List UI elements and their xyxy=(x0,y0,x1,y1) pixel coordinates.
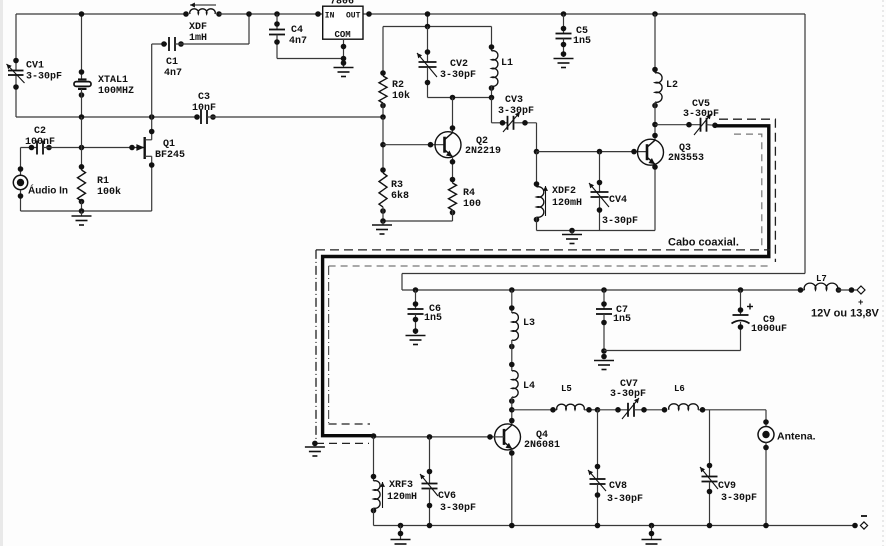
svg-text:CV3: CV3 xyxy=(505,95,523,106)
wire input ground bus y=211 xyxy=(21,210,152,212)
variable capacitor CV8 3-30pF xyxy=(588,410,643,526)
capacitor C3 10nF xyxy=(192,92,383,124)
ground (Q3 stage) xyxy=(562,231,582,244)
inductor L6 xyxy=(662,384,766,413)
svg-text:L2: L2 xyxy=(666,80,678,91)
inductor L7 xyxy=(798,274,857,293)
svg-text:100MHZ: 100MHZ xyxy=(98,86,134,97)
variable capacitor CV7 3-30pF xyxy=(598,379,665,419)
svg-text:10k: 10k xyxy=(392,90,410,102)
svg-text:CV6: CV6 xyxy=(438,491,456,502)
ground (Q2 stage) xyxy=(372,221,392,234)
svg-text:Q1: Q1 xyxy=(163,139,175,150)
svg-text:L3: L3 xyxy=(523,318,535,329)
svg-text:6k8: 6k8 xyxy=(391,190,409,202)
variable capacitor CV6 3-30pF xyxy=(420,437,476,526)
coax shield dashed below main run xyxy=(329,265,770,267)
wire output bus from Q4 collector xyxy=(512,409,557,411)
terminal +12V (diamond) xyxy=(857,286,865,294)
node C3/R2 junction xyxy=(380,114,386,120)
wire Q3 stage bottom bus xyxy=(537,230,656,232)
coax shield left outer dash-dot vertical xyxy=(315,250,317,444)
capacitor C4 4n7 xyxy=(269,11,344,58)
variable capacitor CV9 3-30pF xyxy=(700,410,757,526)
voltage regulator U1 7806 xyxy=(315,0,372,40)
transistor Q4 2N6081 xyxy=(495,424,561,451)
coax shield bottom dashes xyxy=(316,442,369,444)
antenna connector Antena xyxy=(758,410,816,526)
svg-text:CV1: CV1 xyxy=(26,61,44,72)
svg-text:Antena.: Antena. xyxy=(777,431,816,443)
svg-text:CV2: CV2 xyxy=(450,59,468,70)
svg-text:3-30pF: 3-30pF xyxy=(602,216,638,227)
svg-text:1n5: 1n5 xyxy=(613,314,631,325)
wire tank to Q2 collector xyxy=(452,98,454,133)
wire bottom ground bus xyxy=(374,525,856,527)
node CV8 branch xyxy=(595,407,601,413)
transistor Q1 BF245 JFET xyxy=(136,44,185,211)
wire R2 bottom to Q2 base node xyxy=(382,117,384,173)
svg-text:2N2219: 2N2219 xyxy=(465,146,501,157)
svg-text:1000uF: 1000uF xyxy=(751,324,787,335)
capacitor C7 1n5 xyxy=(596,287,631,350)
wire return line to supply rail xyxy=(402,273,805,275)
ground (coax shield) xyxy=(305,441,325,456)
wire 12V rail y=290 xyxy=(402,289,805,291)
resistor R2 10k xyxy=(379,27,410,118)
svg-text:1n5: 1n5 xyxy=(573,36,591,47)
wire CV3 to Q3 base xyxy=(536,123,538,152)
wire Q2 base from R2/R3 node xyxy=(383,144,445,146)
svg-text:XTAL1: XTAL1 xyxy=(98,75,128,86)
svg-text:3-30pF: 3-30pF xyxy=(440,503,476,514)
wire top supply rail left segment xyxy=(16,13,187,15)
variable capacitor CV3 3-30pF xyxy=(492,95,537,132)
svg-text:3-30pF: 3-30pF xyxy=(610,389,646,400)
svg-text:XDF: XDF xyxy=(189,22,207,33)
svg-text:C2: C2 xyxy=(34,126,46,137)
svg-text:C4: C4 xyxy=(291,25,303,36)
wire C7 bottom to C9 bottom xyxy=(604,350,741,352)
svg-text:100nF: 100nF xyxy=(25,137,55,148)
svg-text:10nF: 10nF xyxy=(192,103,216,114)
svg-text:120mH: 120mH xyxy=(387,492,417,503)
svg-text:2N6081: 2N6081 xyxy=(524,440,560,451)
crystal XTAL1 100MHZ xyxy=(74,11,134,117)
ground (7806/C4) xyxy=(334,67,354,69)
terminal negative (diamond) xyxy=(852,516,867,529)
svg-text:R4: R4 xyxy=(463,188,475,199)
wire coax center conductor (thick) xyxy=(323,126,769,436)
variable capacitor CV2 3-30pF xyxy=(417,27,476,98)
svg-text:3-30pF: 3-30pF xyxy=(683,109,719,120)
ground (output bus) xyxy=(642,523,662,549)
coax shield inner dashed (top right) xyxy=(734,134,762,247)
variable capacitor CV5 3-30pF xyxy=(655,99,719,135)
electrolytic capacitor C9 1000uF xyxy=(732,287,788,350)
wire Q2 stage ground bus xyxy=(383,220,453,222)
svg-text:4n7: 4n7 xyxy=(289,36,307,47)
inductor L1 xyxy=(489,27,513,98)
svg-text:7806: 7806 xyxy=(330,0,354,8)
svg-text:CV4: CV4 xyxy=(609,195,627,206)
svg-text:C1: C1 xyxy=(166,57,178,68)
svg-text:100k: 100k xyxy=(97,186,121,198)
svg-text:+: + xyxy=(858,298,863,308)
wire right border vertical xyxy=(804,14,806,274)
svg-text:3-30pF: 3-30pF xyxy=(607,494,643,505)
svg-text:2N3553: 2N3553 xyxy=(668,153,704,164)
label cabo coaxial xyxy=(665,236,741,248)
svg-text:3-30pF: 3-30pF xyxy=(721,493,757,504)
svg-text:R3: R3 xyxy=(391,180,403,191)
ground (C7) xyxy=(594,348,614,369)
wire Q4 base bus from coax xyxy=(374,436,505,438)
wire top supply rail from 7806 to right border xyxy=(364,13,806,15)
svg-text:IN: IN xyxy=(325,12,335,21)
coax shield left inner dash-dot vertical xyxy=(328,266,330,424)
svg-text:L1: L1 xyxy=(501,58,513,69)
svg-text:12V ou 13,8V: 12V ou 13,8V xyxy=(811,308,880,320)
coax shield dashed above main run xyxy=(316,249,770,251)
wire 7806 COM pin to ground xyxy=(343,39,345,67)
inductor L4 xyxy=(509,371,535,425)
svg-text:3-30pF: 3-30pF xyxy=(26,72,62,83)
svg-text:Áudio In: Áudio In xyxy=(28,184,68,197)
svg-text:OUT: OUT xyxy=(346,12,361,21)
inductor XDF 1mH (RF choke in supply rail) xyxy=(183,3,222,45)
svg-text:R1: R1 xyxy=(97,176,109,187)
wire tank bottom xyxy=(428,97,492,99)
wire drop to 12V rail xyxy=(401,274,403,291)
capacitor C1 4n7 xyxy=(152,11,252,79)
transistor Q3 2N3553 xyxy=(638,139,705,165)
wire CV2/L1 top feed y=26.5 xyxy=(427,14,429,27)
svg-text:COM: COM xyxy=(335,30,351,40)
resistor R4 100 (Q2 emitter) xyxy=(449,157,482,221)
capacitor C2 100nF xyxy=(21,126,139,155)
svg-text:3-30pF: 3-30pF xyxy=(440,70,476,81)
svg-text:3-30pF: 3-30pF xyxy=(498,106,534,117)
inductor XDF2 120mH xyxy=(534,152,582,231)
svg-text:4n7: 4n7 xyxy=(164,68,182,79)
svg-text:C3: C3 xyxy=(198,92,210,103)
transistor Q2 2N2219 xyxy=(435,132,501,158)
svg-text:XDF2: XDF2 xyxy=(552,186,576,197)
svg-text:100: 100 xyxy=(463,199,481,210)
coax shield outer dashed (top right) xyxy=(719,119,775,262)
inductor L2 xyxy=(652,11,678,140)
svg-text:BF245: BF245 xyxy=(155,150,185,161)
svg-text:R2: R2 xyxy=(392,80,404,91)
svg-text:L4: L4 xyxy=(523,381,535,392)
resistor R3 6k8 xyxy=(379,167,409,221)
wire top supply rail to 7806 xyxy=(219,13,323,15)
variable capacitor CV4 3-30pF xyxy=(589,152,638,231)
svg-text:CV8: CV8 xyxy=(609,481,627,492)
capacitor C6 1n5 xyxy=(406,287,443,344)
inductor L3 xyxy=(509,287,535,371)
svg-text:XRF3: XRF3 xyxy=(389,480,413,491)
ground (input stage) xyxy=(72,211,92,225)
svg-text:1n5: 1n5 xyxy=(424,313,442,324)
capacitor C5 1n5 xyxy=(554,11,592,67)
variable capacitor CV1 3-30pF xyxy=(7,14,63,117)
resistor R1 100k xyxy=(78,117,122,211)
svg-text:1mH: 1mH xyxy=(189,33,207,44)
audio input connector Audio In xyxy=(13,148,68,212)
svg-text:CV9: CV9 xyxy=(718,481,736,492)
wire oscillator bottom bus y=117 xyxy=(16,116,198,118)
ground (Q4 stage) xyxy=(391,523,411,549)
wire Q4 emitter xyxy=(511,449,513,526)
inductor XRF3 120mH xyxy=(371,437,417,526)
svg-text:L7: L7 xyxy=(816,274,827,284)
svg-text:L6: L6 xyxy=(674,384,685,394)
inductor L5 xyxy=(557,384,598,413)
svg-text:Cabo coaxial.: Cabo coaxial. xyxy=(668,237,739,249)
wire Q3 emitter to ground bus xyxy=(654,164,656,230)
svg-text:120mH: 120mH xyxy=(552,198,582,209)
svg-text:L5: L5 xyxy=(561,384,572,394)
